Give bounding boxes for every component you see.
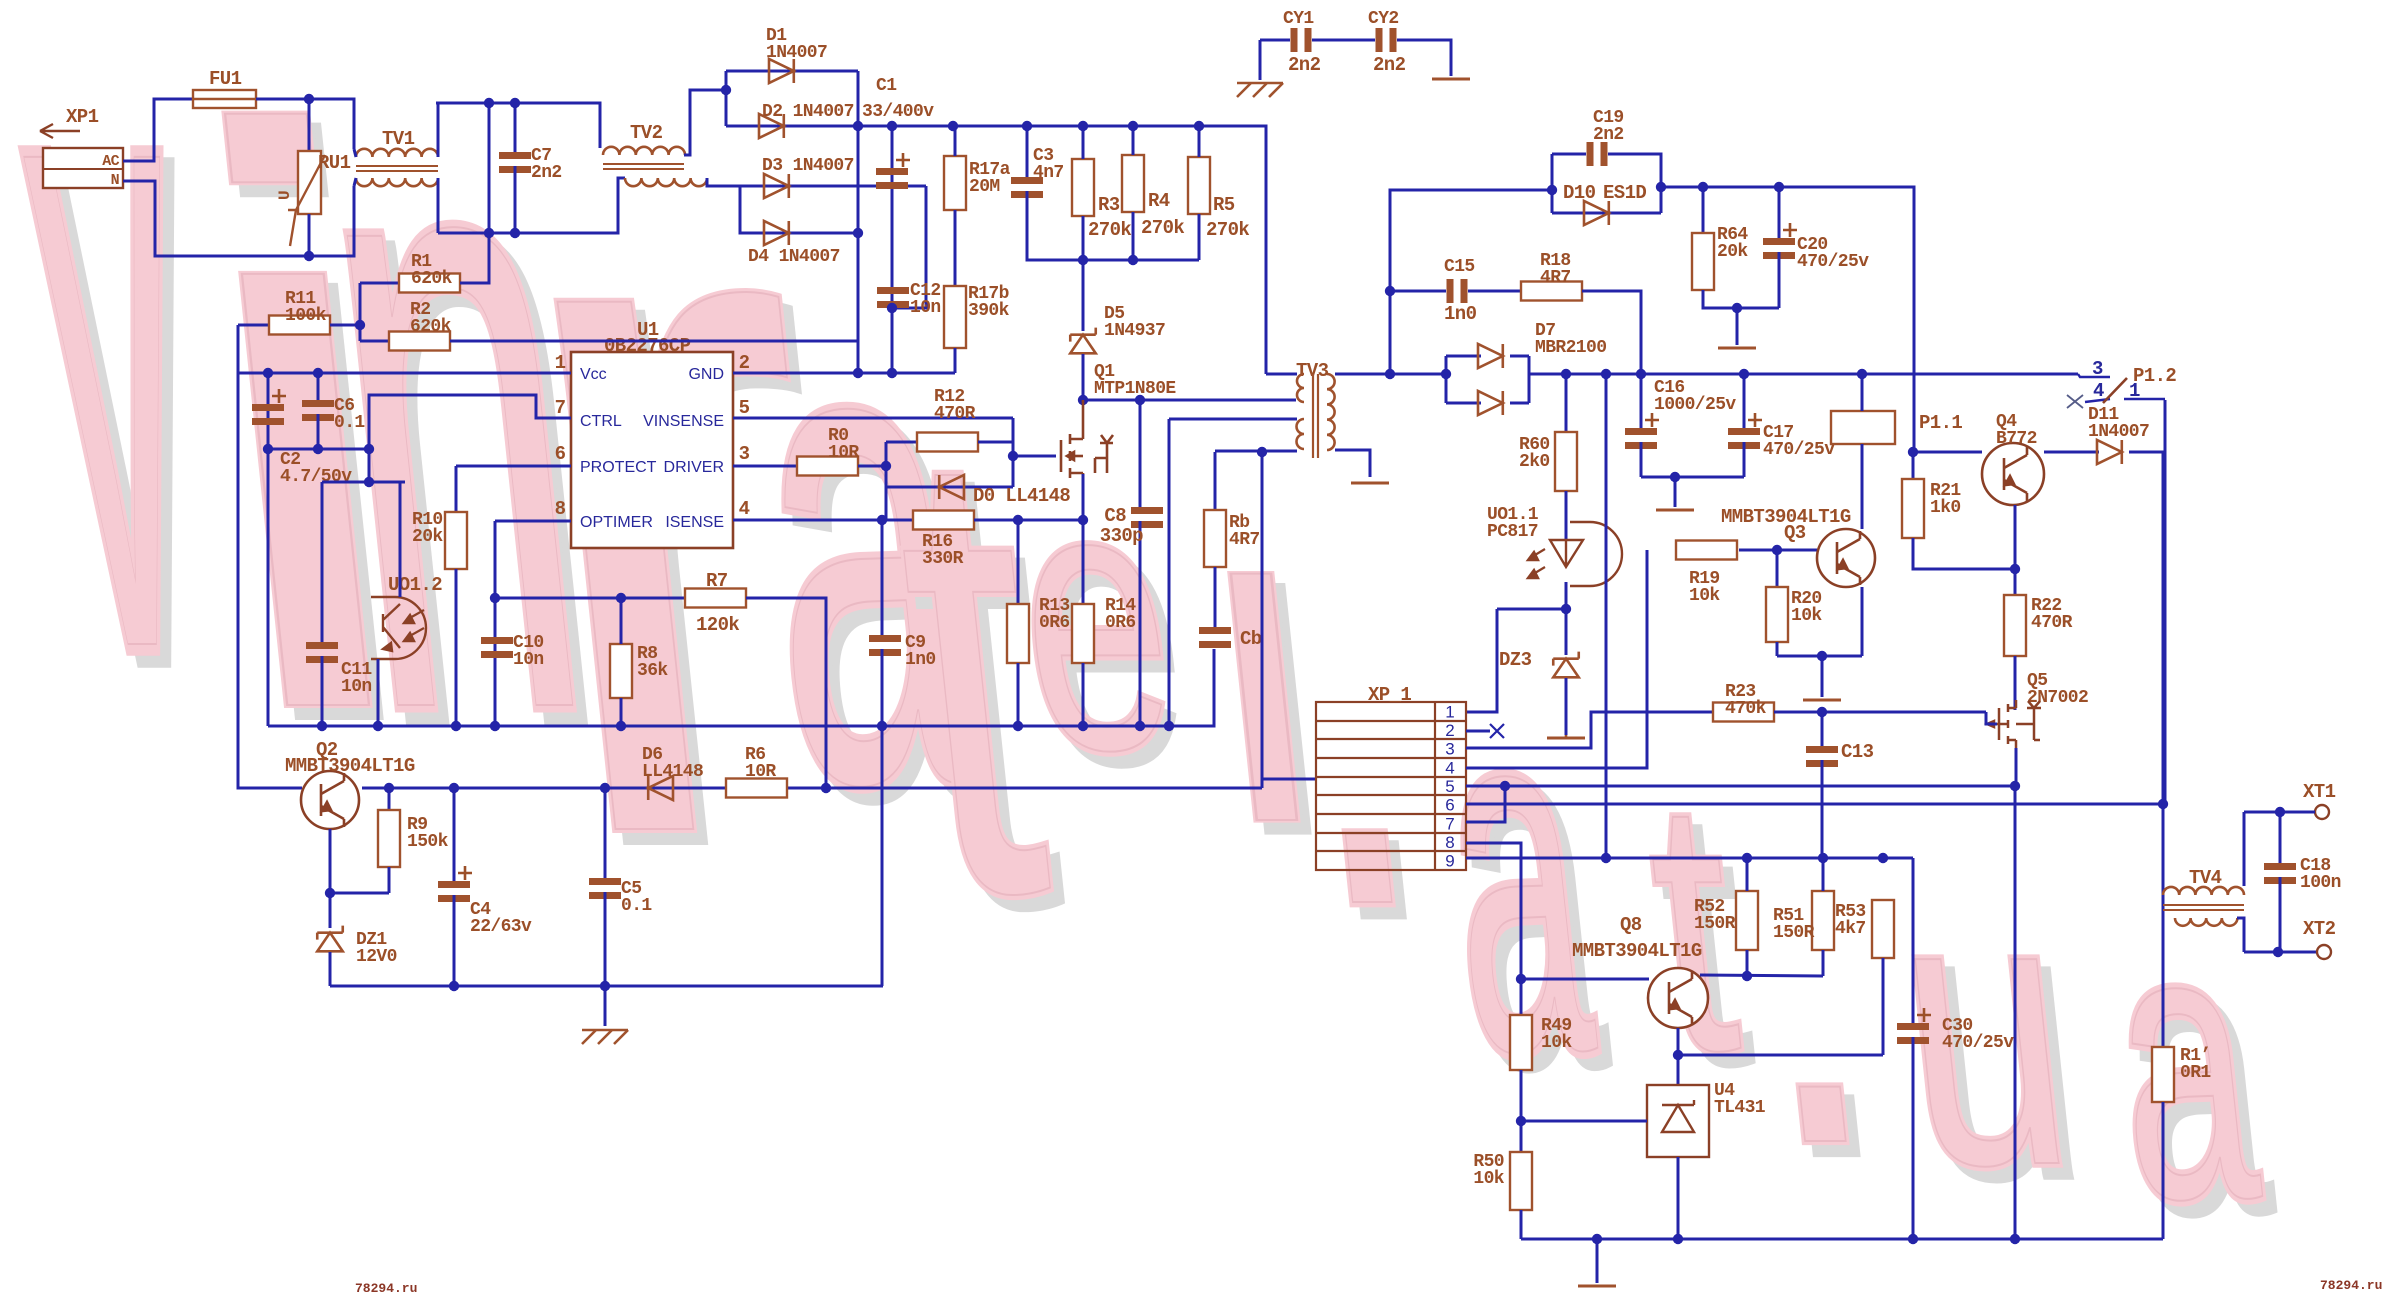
transformer TV3 secondary (1327, 374, 1335, 450)
svg-text:8: 8 (555, 498, 566, 520)
wire R4 top lead (1132, 126, 1135, 155)
wire R13 bottom lead (1017, 663, 1020, 726)
IC U4 TL431 (1647, 1085, 1709, 1157)
wire emitter to R9 (330, 892, 389, 895)
wire C9 top lead (881, 520, 884, 635)
capacitor C3 (1011, 177, 1043, 198)
wire Vcc rail pin1 (238, 372, 571, 375)
wire C20 bottom lead (1778, 252, 1781, 308)
wire R20 top lead (1776, 550, 1779, 587)
junction R1 bottom rail (484, 228, 494, 238)
C7 plates (499, 152, 531, 173)
svg-text:XT1: XT1 (2303, 781, 2336, 803)
junction gnd return top (1601, 369, 1611, 379)
label D5 (1104, 304, 1165, 341)
wire D7 bottom in (1446, 402, 1481, 405)
diode D5 (1070, 328, 1096, 354)
label C11 (341, 660, 372, 697)
resistor R17a (944, 156, 966, 210)
svg-text:D2 1N4007: D2 1N4007 (762, 102, 854, 122)
transformer TV3 primary (1297, 374, 1304, 402)
svg-text:6: 6 (555, 443, 566, 465)
wire R12 left lead (886, 441, 917, 444)
junction C8 top (1135, 395, 1145, 405)
wire Rb top lead (1214, 452, 1217, 510)
diode D4 (764, 221, 789, 245)
R19 body (1676, 541, 1737, 560)
junction R17a top (948, 121, 958, 131)
junction aux-fb (1257, 447, 1267, 457)
ground aux (1718, 347, 1756, 350)
R18 body (1521, 282, 1582, 301)
svg-text:470k: 470k (1725, 699, 1767, 719)
wire R17a top lead (954, 126, 957, 156)
junction relay top (1857, 369, 1867, 379)
svg-text:PROTECT: PROTECT (580, 459, 657, 476)
wire R11 right lead (330, 324, 360, 327)
svg-text:390k: 390k (968, 301, 1010, 321)
svg-text:270k: 270k (1141, 217, 1184, 239)
wire bottom filter rail (438, 178, 625, 233)
diode D6 (648, 776, 673, 800)
D0 symbol (939, 475, 964, 499)
wire C19 right lead (1608, 154, 1661, 213)
svg-text:120k: 120k (696, 614, 739, 636)
diode D2 (759, 114, 784, 138)
resistor R21 (1902, 479, 1924, 538)
watermark dot1 (1254, 324, 1455, 1050)
ground Q3 (1803, 699, 1841, 702)
wire U4 ref line (1521, 1120, 1647, 1123)
capacitor C1 (876, 153, 910, 189)
wire pin7 line (1466, 786, 1505, 822)
label C12 (910, 281, 941, 318)
wire R5 bottom lead (1198, 214, 1201, 260)
svg-text:TV4: TV4 (2189, 867, 2222, 889)
junction opto top (364, 477, 374, 487)
wire Q8 collector line (1700, 975, 1823, 976)
svg-text:C1: C1 (876, 76, 897, 96)
svg-text:100n: 100n (2300, 873, 2341, 893)
resistor R1p (2152, 1047, 2174, 1102)
C1 plates (876, 153, 910, 189)
svg-text:10n: 10n (513, 650, 544, 670)
watermark u (1881, 815, 2097, 1258)
junction R52 top (1742, 853, 1752, 863)
wire Q1 gate (1013, 455, 1056, 458)
junction pin7 link (1500, 781, 1510, 791)
jumper P1.2 blade (2103, 378, 2127, 403)
label C1 (876, 76, 897, 96)
junction C2 top (263, 368, 273, 378)
C3 plates (1011, 177, 1043, 198)
transformer TV1 core (356, 166, 438, 171)
wire TV1 ur up (437, 103, 440, 157)
wire D0 line (886, 486, 1013, 489)
svg-text:1000/25v: 1000/25v (1654, 395, 1736, 415)
wire out gnd stub (1674, 477, 1677, 507)
svg-text:10n: 10n (910, 298, 941, 318)
wire opto branch (368, 449, 371, 482)
svg-text:B772: B772 (1996, 429, 2037, 449)
R16 body (913, 511, 974, 530)
svg-text:5: 5 (1445, 777, 1454, 796)
wire pin8 line (1466, 843, 1521, 979)
wire TV1 lr down (437, 178, 440, 233)
R64 body (1692, 233, 1714, 290)
wire TV3 aux bottom (1215, 450, 1297, 453)
wire TV1 ul (354, 149, 356, 157)
junction Q1 drain (1078, 395, 1088, 405)
junction snubber (1385, 369, 1395, 379)
wire UO1.2 collector (399, 482, 402, 597)
wire C16 bottom lead (1640, 442, 1643, 477)
svg-text:CTRL: CTRL (580, 413, 622, 430)
wire CY1 left lead (1260, 39, 1290, 42)
label C10 (513, 633, 544, 670)
wire D11 out (2129, 400, 2165, 452)
wire D3 cathode down (892, 186, 926, 308)
watermark i (147, 0, 460, 890)
CY2 plates (1376, 28, 1397, 52)
ground TV3 (1351, 482, 1389, 485)
svg-text:6: 6 (1445, 796, 1454, 815)
svg-text:MMBT3904LT1G: MMBT3904LT1G (285, 755, 415, 777)
junction Q5 source (2010, 781, 2020, 791)
R11 body (269, 316, 330, 335)
svg-text:D4 1N4007: D4 1N4007 (748, 247, 840, 267)
R22 body (2004, 595, 2026, 656)
capacitor C5 (589, 878, 621, 899)
label R20 (1791, 589, 1822, 626)
wire C17 top lead (1743, 374, 1746, 428)
relay coil P1.1 (1831, 411, 1895, 444)
svg-text:270k: 270k (1206, 219, 1249, 241)
wire R60 top lead (1565, 374, 1568, 432)
DZ3 ground bar (1547, 737, 1585, 740)
C16 plates (1625, 413, 1659, 449)
wire R10 bottom lead (455, 569, 458, 726)
svg-text:MMBT3904LT1G: MMBT3904LT1G (1572, 940, 1702, 962)
transformer TV4 primary (2163, 887, 2244, 895)
svg-text:1k0: 1k0 (1930, 498, 1961, 518)
junction C4 bottom (449, 981, 459, 991)
wire pin5 line (1466, 785, 2015, 788)
ground CY1 (1237, 83, 1283, 97)
label R6 (745, 745, 776, 782)
svg-text:470/25v: 470/25v (1942, 1033, 2014, 1053)
wire C5 bottom lead (604, 892, 607, 1026)
transformer TV2 lower winding (625, 178, 707, 186)
C2 plates (252, 389, 286, 425)
junction C2-C6 bottom (263, 444, 273, 454)
wire C11 top lead (321, 482, 324, 642)
wire U4 anode (1677, 1157, 1680, 1239)
svg-text:R5: R5 (1213, 194, 1235, 216)
svg-text:DRIVER: DRIVER (664, 459, 724, 476)
wire R21 bottom (1913, 538, 2015, 569)
capacitor C6 (302, 400, 334, 421)
capacitor C2 (252, 389, 286, 425)
capacitor C7 (499, 152, 531, 173)
ground primary (582, 1030, 628, 1044)
junction C6 top (313, 368, 323, 378)
junction C18 top (2275, 807, 2285, 817)
junction rail R8 (616, 721, 626, 731)
optocoupler UO1.2 (371, 597, 426, 659)
wire fb vertical (1261, 452, 1264, 788)
R1p body (2152, 1047, 2174, 1102)
transformer TV1 upper winding (356, 149, 438, 157)
svg-text:10n: 10n (341, 677, 372, 697)
arrow XP1 (40, 124, 80, 138)
svg-text:D10: D10 (1563, 182, 1596, 204)
svg-text:0R6: 0R6 (1039, 613, 1070, 633)
D6 symbol (648, 776, 673, 800)
label C17 (1763, 423, 1835, 460)
junction D10 left (1547, 185, 1557, 195)
junction C20 top (1774, 182, 1784, 192)
wire GND pin2 line (733, 372, 955, 375)
wire pin2 stub (1466, 730, 1490, 733)
svg-text:270k: 270k (1088, 219, 1131, 241)
wire pin4 stub (2085, 399, 2110, 402)
resistor R5 (1188, 157, 1210, 214)
wire gnd return vertical (1605, 374, 1608, 858)
wire AC to fuse (123, 99, 193, 161)
junction U4 ref (1516, 1116, 1526, 1126)
wire C7 bottom lead (514, 166, 517, 233)
wire emitter to R53 (1678, 1054, 1883, 1057)
svg-text:4: 4 (2093, 380, 2104, 402)
capacitor C10 (481, 637, 513, 658)
junction gate node (1008, 451, 1018, 461)
label Rb (1229, 513, 1260, 550)
junction rail R13 (1013, 721, 1023, 731)
wire DZ1 bottom lead (329, 952, 332, 986)
junction rail C8 (1135, 721, 1145, 731)
terminal XT1 (2315, 805, 2329, 819)
label R17b (968, 284, 1010, 321)
junction R5 top (1194, 121, 1204, 131)
wire R1R2 vertical (359, 283, 362, 341)
wire R64 bottom (1703, 290, 1779, 308)
junction DZ3 top (1561, 604, 1571, 614)
svg-text:470/25v: 470/25v (1763, 440, 1835, 460)
resistor R4 (1122, 155, 1144, 212)
wire C30 bottom lead (1912, 1037, 1915, 1239)
label R14 (1105, 596, 1136, 633)
R50 body (1510, 1152, 1532, 1210)
wire C15 left (1390, 290, 1446, 293)
label C20 (1797, 235, 1869, 272)
R10 body (445, 512, 467, 569)
svg-text:N: N (111, 172, 120, 189)
svg-text:330p: 330p (1100, 525, 1143, 547)
wire CY1 ground lead (1259, 40, 1262, 80)
R7 body (685, 589, 746, 608)
wire R8 top lead (620, 598, 623, 644)
capacitor C19 (1587, 142, 1608, 166)
svg-text:470R: 470R (934, 404, 976, 424)
svg-text:36k: 36k (637, 661, 668, 681)
watermark a2 (1422, 590, 1622, 1169)
wire pin9 line (1466, 857, 1913, 860)
wire pin1 link (1466, 609, 1497, 712)
svg-text:0R6: 0R6 (1105, 613, 1136, 633)
svg-text:12V0: 12V0 (356, 947, 397, 967)
ground output (1656, 509, 1694, 512)
junction C4 top (449, 783, 459, 793)
C8 plates (1131, 507, 1163, 528)
diode D3 (764, 174, 789, 198)
label R52 (1694, 897, 1736, 934)
TV3 ground bar (1351, 482, 1389, 485)
R12 body (917, 433, 978, 452)
wire R19 to Q3 base (1739, 549, 1817, 552)
svg-text:78294.ru: 78294.ru (2320, 1278, 2382, 1293)
resistor R18 (1521, 282, 1582, 301)
wire R12 right (978, 441, 1013, 444)
R2 body (389, 332, 450, 351)
junction D7 in (1441, 369, 1451, 379)
wire C30 top lead (1912, 858, 1915, 1023)
capacitor Cb (1199, 627, 1231, 648)
wire TV3 primary top (1266, 373, 1297, 376)
C17 plates (1728, 413, 1762, 449)
wire R2 left lead (360, 340, 389, 343)
wire Q3 emitter down (1861, 587, 1864, 656)
wire C15-R18 (1468, 290, 1521, 293)
secondary ground bar (1578, 1285, 1616, 1288)
label R18 (1540, 251, 1571, 288)
R53 body (1872, 900, 1894, 958)
wire snubber vertical (1390, 190, 1552, 374)
transistor Q5 MOSFET (1987, 700, 2041, 748)
C18 plates (2264, 863, 2296, 884)
transformer TV2 upper winding (603, 147, 685, 155)
wire TV4 right up (2243, 812, 2246, 886)
R8 body (610, 644, 632, 698)
R9 body (378, 810, 400, 867)
C4 plates (438, 866, 472, 902)
svg-text:4.7/50v: 4.7/50v (280, 467, 352, 487)
label R51 (1773, 906, 1815, 943)
wire R2 right lead (450, 340, 858, 343)
optocoupler UO1.1 LED (1528, 522, 1622, 586)
svg-text:C15: C15 (1444, 257, 1475, 277)
junction R51 top (1818, 853, 1828, 863)
resistor R2 (389, 332, 450, 351)
resistor R51 (1812, 891, 1834, 950)
resistor R0 (797, 457, 858, 476)
wire D7 bottom out (1510, 402, 1529, 405)
resistor R12 (917, 433, 978, 452)
capacitor C4 (438, 866, 472, 902)
watermark v (0, 0, 243, 851)
wire R64 top lead (1702, 187, 1705, 233)
capacitor C30 (1897, 1008, 1931, 1044)
C30 plates (1897, 1008, 1931, 1044)
junction x858 D4 (853, 228, 863, 238)
junction R8 top (616, 593, 626, 603)
wire D7 top in (1446, 355, 1481, 358)
wire C8 top lead (1139, 400, 1142, 507)
wire C19 loop left (1551, 154, 1554, 213)
svg-text:0.1: 0.1 (621, 896, 652, 916)
svg-text:2n2: 2n2 (1373, 54, 1406, 76)
wire D4 line (740, 186, 858, 233)
capacitor C20 (1763, 223, 1797, 259)
wire C6 top lead (317, 373, 320, 400)
wire TV3 secondary bottom (1335, 450, 1370, 477)
junction C30 bottom (1908, 1234, 1918, 1244)
DZ3 symbol (1553, 652, 1579, 678)
junction U4 anode rail (1673, 1234, 1683, 1244)
R17a body (944, 156, 966, 210)
D4 symbol (764, 221, 789, 245)
svg-text:C8: C8 (1104, 505, 1126, 527)
svg-text:33/400v: 33/400v (862, 102, 934, 122)
svg-text:2n2: 2n2 (1288, 54, 1321, 76)
wire Q5 gate jog (1986, 712, 1997, 724)
junction rail R14 (1078, 721, 1088, 731)
transformer TV4 secondary (2175, 918, 2237, 926)
resistor R52 (1736, 891, 1758, 950)
CY1 plates (1291, 28, 1312, 52)
wire XT1 line (2244, 811, 2315, 814)
junction C17 top (1739, 369, 1749, 379)
label R1 (411, 252, 453, 289)
label C3 (1033, 146, 1064, 183)
zener DZ3 (1553, 652, 1579, 678)
label U4 (1714, 1081, 1766, 1118)
wire R9 top lead (388, 788, 391, 810)
junction R7 left (490, 593, 500, 603)
wire R53 bottom lead (1882, 958, 1885, 1055)
svg-text:OPTIMER: OPTIMER (580, 514, 653, 531)
ground secondary (1578, 1285, 1616, 1288)
D3 symbol (764, 174, 789, 198)
diode D0 (939, 475, 964, 499)
wire R5 top lead (1198, 126, 1201, 157)
wire R17b bottom lead (954, 348, 957, 373)
junction D10 out (1656, 182, 1666, 192)
wire TV2 lr to diode (707, 178, 740, 186)
label R8 (637, 644, 668, 681)
junction C5 top (600, 783, 610, 793)
junction C12 gnd (887, 368, 897, 378)
label R50 (1473, 1152, 1504, 1189)
wire R9 bottom lead (388, 867, 391, 893)
wire C1-C12 vertical (891, 126, 894, 373)
wire RU1 bottom lead (308, 214, 311, 256)
capacitor CY2 (1376, 28, 1397, 52)
diode D7 upper (1478, 344, 1503, 368)
R52 body (1736, 891, 1758, 950)
svg-text:0R1: 0R1 (2180, 1063, 2211, 1083)
svg-text:4: 4 (1445, 758, 1454, 777)
wire D1-D2 anodes (725, 71, 728, 126)
svg-text:RU1: RU1 (318, 152, 351, 174)
transistor Q4 (1982, 443, 2044, 505)
terminal XT2 (2317, 945, 2331, 959)
wire R14 bottom lead (1082, 663, 1085, 726)
wire R7 right to D6 line (746, 598, 826, 788)
svg-text:CY2: CY2 (1368, 9, 1399, 29)
transformer TV2 core (603, 164, 684, 169)
ground CY2 (1432, 78, 1470, 81)
